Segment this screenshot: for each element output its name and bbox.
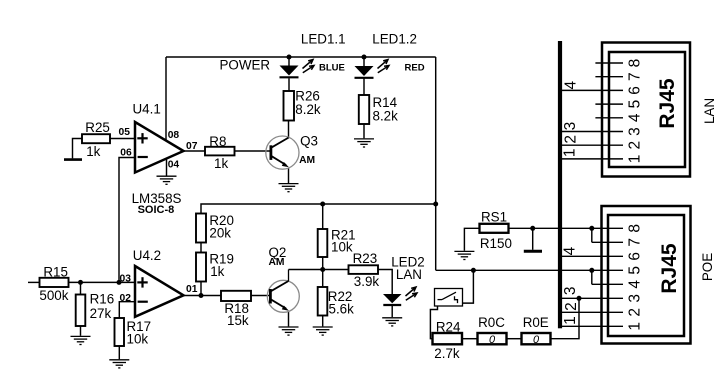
svg-text:0: 0 — [489, 334, 496, 346]
svg-text:R16: R16 — [90, 291, 115, 306]
svg-text:1: 1 — [562, 316, 579, 325]
svg-text:3: 3 — [562, 122, 579, 131]
svg-text:AM: AM — [269, 257, 285, 268]
svg-text:RS1: RS1 — [481, 210, 507, 225]
svg-text:3: 3 — [562, 286, 579, 295]
svg-text:2.7k: 2.7k — [434, 346, 460, 361]
svg-text:15k: 15k — [227, 313, 249, 328]
svg-text:03: 03 — [120, 274, 132, 285]
svg-text:BLUE: BLUE — [319, 63, 345, 74]
svg-text:04: 04 — [168, 160, 180, 171]
svg-text:U4.1: U4.1 — [133, 102, 161, 117]
svg-text:U4.2: U4.2 — [133, 248, 161, 263]
svg-text:POWER: POWER — [220, 58, 271, 73]
svg-text:2: 2 — [627, 308, 644, 317]
svg-text:8: 8 — [627, 59, 644, 68]
svg-text:7: 7 — [627, 72, 644, 81]
svg-text:POE: POE — [700, 253, 715, 281]
svg-text:Q3: Q3 — [300, 133, 318, 148]
svg-text:5: 5 — [627, 266, 644, 275]
svg-text:LED1.1: LED1.1 — [301, 32, 346, 47]
svg-text:05: 05 — [119, 127, 131, 138]
svg-text:RJ45: RJ45 — [658, 243, 681, 294]
svg-text:10k: 10k — [127, 331, 149, 346]
svg-text:R8: R8 — [209, 134, 226, 149]
svg-text:27k: 27k — [90, 306, 112, 321]
svg-text:R24: R24 — [436, 319, 461, 334]
svg-text:LED1.2: LED1.2 — [372, 32, 417, 47]
svg-text:5: 5 — [627, 100, 644, 109]
svg-text:R25: R25 — [85, 120, 110, 135]
svg-text:R15: R15 — [43, 265, 68, 280]
svg-text:2: 2 — [563, 135, 580, 144]
svg-text:10k: 10k — [331, 240, 353, 255]
svg-text:3.9k: 3.9k — [354, 274, 380, 289]
svg-text:LAN: LAN — [702, 98, 717, 124]
svg-text:3: 3 — [627, 127, 644, 136]
svg-text:4: 4 — [627, 280, 644, 289]
svg-text:2: 2 — [563, 302, 580, 311]
svg-text:01: 01 — [186, 284, 198, 295]
svg-text:08: 08 — [168, 130, 180, 141]
svg-text:R23: R23 — [353, 251, 378, 266]
svg-text:20k: 20k — [209, 225, 231, 240]
svg-text:8.2k: 8.2k — [373, 109, 399, 124]
svg-text:4: 4 — [562, 81, 579, 90]
svg-text:RED: RED — [405, 63, 425, 74]
svg-text:1: 1 — [627, 322, 644, 331]
svg-text:0: 0 — [533, 334, 540, 346]
svg-text:1k: 1k — [210, 264, 224, 279]
svg-text:R0C: R0C — [478, 315, 505, 330]
svg-text:2: 2 — [627, 141, 644, 150]
svg-text:500k: 500k — [39, 288, 68, 303]
svg-text:1: 1 — [627, 155, 644, 164]
svg-text:SOIC-8: SOIC-8 — [138, 204, 175, 216]
svg-text:8: 8 — [627, 224, 644, 233]
svg-text:RJ45: RJ45 — [656, 78, 679, 129]
svg-text:1: 1 — [562, 148, 579, 157]
svg-text:1k: 1k — [214, 156, 228, 171]
svg-text:1k: 1k — [86, 144, 100, 159]
svg-text:02: 02 — [120, 293, 132, 304]
svg-text:LAN: LAN — [396, 267, 422, 282]
svg-text:6: 6 — [627, 86, 644, 95]
svg-text:4: 4 — [627, 113, 644, 122]
svg-text:R14: R14 — [373, 95, 398, 110]
svg-text:R0E: R0E — [523, 315, 549, 330]
svg-text:R150: R150 — [480, 236, 512, 251]
svg-text:06: 06 — [120, 147, 132, 158]
svg-text:6: 6 — [627, 252, 644, 261]
svg-text:8.2k: 8.2k — [295, 102, 321, 117]
svg-text:4: 4 — [562, 246, 579, 255]
svg-text:AM: AM — [299, 155, 315, 166]
svg-text:5.6k: 5.6k — [329, 301, 355, 316]
svg-text:7: 7 — [627, 238, 644, 247]
svg-text:3: 3 — [627, 294, 644, 303]
svg-text:07: 07 — [186, 141, 198, 152]
